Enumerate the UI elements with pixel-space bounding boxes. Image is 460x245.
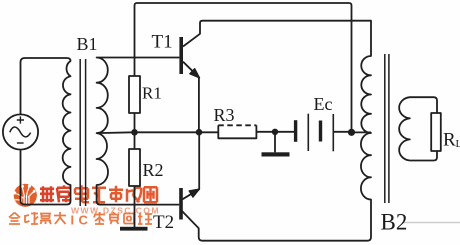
B1 core lines [80,59,85,206]
svg-text:C: C [79,212,89,227]
B2 secondary winding + wires to RL [399,97,437,160]
wire: R2 top to center node [134,132,136,149]
svg-text:I: I [71,212,75,227]
wire: T1 base line + B1 secondary winding + T2 base line [97,58,180,205]
svg-text:R: R [443,130,456,151]
battery Ec: plate + (long thin) [307,114,309,151]
battery Ec: plate - (short thick) [294,120,297,142]
svg-text:B2: B2 [381,210,408,235]
wire: R3 right to ground node [256,131,294,133]
faint scan line right of B2 [402,222,460,224]
resistor R1 [129,76,140,113]
wire: battery + to node [334,131,352,133]
battery Ec: plate + (long thin) [332,114,334,151]
svg-text:Ec: Ec [314,94,333,114]
svg-text:L: L [456,138,460,150]
junction node R3/ground/battery [272,129,278,135]
svg-text:T1: T1 [152,32,173,53]
svg-text:B1: B1 [77,34,98,54]
svg-text:R2: R2 [143,160,164,180]
wire: R2 bottom down through T2 base line to ground [134,186,136,227]
resistor R2 [129,149,140,186]
wire: center line from B1 center tap to R3 [97,131,219,134]
source plus sign [17,116,24,123]
ground under battery node [274,132,276,153]
source sine wave [10,127,31,137]
load resistor RL [431,113,441,151]
AC source V1 circle [3,114,38,149]
svg-text:T2: T2 [153,212,174,233]
wire: T1 emitter diagonal + vertical down to node [183,62,199,129]
T2 emitter arrow head [189,189,199,197]
junction node battery+/rail/B2 tap [348,129,355,136]
T1 emitter arrow head [190,69,200,78]
watermark bottom row 全球最大IC采购网站 (fake CJK strokes) [9,212,66,224]
wire: T1 collector, top-right rail, B2 primary winding, bottom rail, T2 collector [182,21,371,241]
wire: top rail from R1 top, across, down to battery node [135,3,352,130]
junction node R1/R2/center [131,129,138,136]
watermark title 维库电子市场网 (fake CJK strokes) [40,185,71,202]
battery Ec: plate - (short thick) [319,121,322,142]
B2 core lines [385,54,389,203]
transistor T1 base bar [179,37,183,74]
wire: node to B2 primary center tap [352,131,372,133]
svg-text:R1: R1 [142,84,162,103]
junction node emitters/center [196,129,203,136]
wire: source loop + transformer B1 primary winding [21,58,71,205]
wire: R1 bottom to center line [134,113,136,132]
svg-text:R3: R3 [214,105,235,125]
resistor R3 (top edge dashed) [218,125,256,138]
ground under R2 [120,227,148,231]
watermark logo disc [12,184,37,207]
wire: T2 emitter diagonal + vertical up to node [182,135,199,199]
transistor T2 base bar [179,188,183,220]
source minus sign [17,142,24,144]
